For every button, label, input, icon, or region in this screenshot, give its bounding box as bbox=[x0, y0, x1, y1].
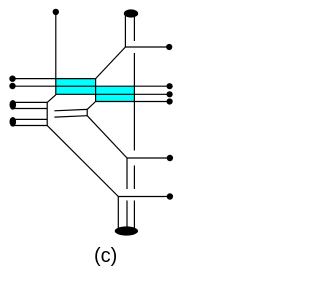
wire: switch1 vertical V5 segment a bbox=[126, 158, 128, 189]
wire: left switch bar bbox=[46, 102, 48, 125]
node: bottom fat leaf ellipse bbox=[115, 226, 138, 235]
wire: middle pair top bbox=[54, 109, 87, 110]
node: right dot (y94) bbox=[167, 91, 173, 97]
wire: top-right horizontal H5 to dot bbox=[125, 46, 169, 48]
node: left fat oval 1 bbox=[10, 100, 17, 110]
node: right dot (y86) bbox=[167, 83, 173, 89]
node: left dot 2 bbox=[9, 83, 15, 89]
node: top-right fat leaf ellipse bbox=[124, 9, 138, 17]
wire: vertical V2 mid bbox=[95, 79, 97, 102]
wire: left oval 1 pair top bbox=[14, 101, 47, 103]
wire: top leaf vertical bbox=[55, 12, 57, 95]
node: left dot 1 bbox=[9, 76, 15, 82]
wire: diagonal from top vertical to left switch bar bbox=[47, 95, 56, 103]
wire: long diagonal D2 from left bar to switch2 bbox=[47, 126, 118, 197]
wire: diagonal D5 from top junction to ribbon corner bbox=[96, 47, 126, 79]
wire: switch1 horizontal H6 to dot bbox=[127, 157, 170, 159]
wire: V5 segment b to bottom ellipse bbox=[126, 201, 128, 229]
node: top leaf dot bbox=[53, 9, 59, 15]
wire: top ellipse pair left line V4 bbox=[124, 14, 126, 48]
wire: middle pair bottom bbox=[54, 116, 87, 117]
wire: V3 segment c bbox=[133, 166, 135, 190]
wire: diagonal D4 down from middle pair to switch1 bbox=[87, 116, 127, 158]
node: right dot (y158) bbox=[167, 155, 173, 161]
caption (c) bbox=[94, 245, 117, 268]
wire: V3 segment d to bottom ellipse bbox=[133, 201, 135, 229]
wire: horizontal H4 to right dot bbox=[96, 101, 170, 103]
node: right dot (y101) bbox=[167, 98, 173, 104]
wire: top ellipse pair right line V3 segment a bbox=[133, 14, 135, 42]
wire: left oval 1 pair bottom bbox=[14, 108, 47, 110]
wire: switch2 horizontal H7 to dot bbox=[118, 196, 170, 198]
wire: diagonal D3 up from middle pair bbox=[87, 102, 95, 110]
highlighted branch left (cyan band) bbox=[56, 79, 95, 95]
wire: left oval 2 pair top bbox=[14, 118, 47, 120]
wire: horizontal H1 from left dot 1 bbox=[13, 78, 96, 80]
wire: left oval 2 pair bottom bbox=[14, 125, 47, 127]
node: right dot top (y47) bbox=[166, 44, 172, 50]
wire: horizontal H2 from left dot 2 to right dot bbox=[13, 85, 170, 87]
wire: horizontal H3 to right dot bbox=[56, 93, 170, 95]
highlighted branch right (cyan band) bbox=[96, 86, 135, 101]
wire: middle pair right bar bbox=[86, 109, 88, 115]
wire: V3 segment b (below crossing) bbox=[133, 53, 135, 151]
node: left fat oval 2 bbox=[10, 117, 17, 127]
wire: switch2 vertical V6 to bottom ellipse bbox=[117, 197, 119, 229]
node: right dot (y196) bbox=[167, 193, 173, 199]
